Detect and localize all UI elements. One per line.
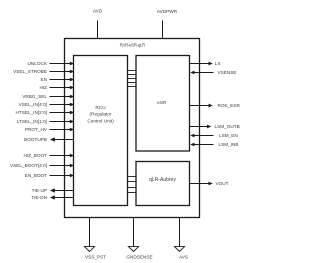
svg-text:LSM_OUTB: LSM_OUTB [215,124,240,129]
input pin LTSEL_IN[1:0] [17,119,75,124]
input pin VSEL_IN[4:0] [19,102,75,107]
svg-text:UNLOCK: UNLOCK [27,61,47,66]
wire bus RCU to eSR rung 5 [127,86,137,88]
svg-text:(Regulator: (Regulator [90,112,112,117]
input pin VRBG_SEL [22,94,74,99]
svg-text:VSENSE: VSENSE [218,70,237,75]
svg-text:PROT_HV: PROT_HV [25,127,48,132]
svg-text:RCU: RCU [95,105,106,110]
svg-text:RAR-eSR-qLR: RAR-eSR-qLR [120,43,145,48]
svg-text:LTSEL_IN[1:0]: LTSEL_IN[1:0] [17,119,47,124]
input pin PROT_HV [25,127,74,132]
output pin LSM_OUTB [190,124,240,129]
wire bus RCU to eSR rung 1 [127,70,137,72]
svg-text:VRBG_SEL: VRBG_SEL [22,94,47,99]
input pin HIZ [39,85,74,90]
output pin VOUT [190,181,229,186]
ground pin AVS [174,218,188,260]
input pin HIZ_BOOT [24,153,75,158]
svg-text:ROK_ESR: ROK_ESR [218,103,241,108]
wire bus RCU to eSR rung 3 [127,78,137,80]
svg-text:LSM_INB: LSM_INB [219,142,239,147]
wire bus RCU to qLR-Aubrey rung 2 [127,181,137,183]
svg-text:EN: EN [40,77,47,82]
input pin EN [40,77,74,82]
wire bus RCU to qLR-Aubrey rung 3 [127,187,137,189]
svg-text:LX: LX [215,61,222,66]
svg-text:GNDSENSE: GNDSENSE [126,255,152,260]
svg-text:HIZ: HIZ [39,85,47,90]
wire bus RCU to eSR rung 4 [127,82,137,84]
wire bus RCU to qLR-Aubrey rung 1 [127,176,137,178]
ground pin VSS_PST [84,218,106,260]
svg-text:qLR-Aubrey: qLR-Aubrey [149,177,176,183]
power pin AVDPWR [157,9,178,39]
output pin TIE-DN [31,195,74,200]
svg-text:HIZ_BOOT: HIZ_BOOT [24,153,48,158]
input pin VSEL_BOOT[4:0] [10,163,74,168]
power pin AVD [93,8,103,39]
svg-text:VSS_PST: VSS_PST [85,255,106,260]
svg-text:TIE-UP: TIE-UP [32,188,47,193]
svg-text:EN_BOOT: EN_BOOT [25,173,48,178]
svg-text:VSEL_IN[4:0]: VSEL_IN[4:0] [19,102,47,107]
output pin BOOTUPB [24,137,74,142]
input pin VSENSE [190,70,236,75]
svg-text:AVDPWR: AVDPWR [157,9,178,14]
block qLR-Aubrey [136,162,190,206]
block eSR [136,56,190,152]
output pin LX [190,61,222,66]
block RCU (Regulator Control Unit) [74,56,128,206]
input pin LSM_EN [190,133,238,138]
svg-text:VOUT: VOUT [216,181,229,186]
svg-text:BOOTUPB: BOOTUPB [24,137,47,142]
svg-text:eSR: eSR [157,100,167,105]
input pin VSEL_STROBE [13,69,74,74]
svg-text:TIE-DN: TIE-DN [31,195,47,200]
input pin UNLOCK [27,61,74,66]
output pin ROK_ESR [190,103,241,108]
svg-text:Control Unit): Control Unit) [87,118,114,123]
label RAR-eSR-qLR [120,43,145,48]
ground pin GNDSENSE [126,218,152,260]
wire bus RCU to eSR rung 2 [127,74,137,76]
input pin LSM_INB [190,142,238,147]
svg-text:HTSEL_IN[2:0]: HTSEL_IN[2:0] [15,110,47,115]
svg-text:VSEL_BOOT[4:0]: VSEL_BOOT[4:0] [10,163,47,168]
input pin HTSEL_IN[2:0] [15,110,74,115]
svg-text:AVD: AVD [93,8,103,13]
input pin EN_BOOT [25,173,75,178]
block RAR-eSR-qLR outer boundary [65,39,200,218]
svg-text:VSEL_STROBE: VSEL_STROBE [13,69,47,74]
wire bus RCU to qLR-Aubrey rung 4 [127,192,137,194]
output pin TIE-UP [32,188,74,193]
svg-text:AVS: AVS [179,255,188,260]
svg-text:LSM_EN: LSM_EN [219,133,238,138]
